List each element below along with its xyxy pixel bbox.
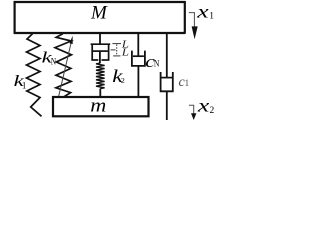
wire stem from M to cylinder <box>99 34 101 45</box>
wire stem from M <box>166 34 168 78</box>
mass M box <box>14 1 186 34</box>
cylinder left wall <box>91 44 93 60</box>
wire bottom of M <box>14 32 186 34</box>
cylinder bottom right segment <box>102 59 110 61</box>
svg-text:1: 1 <box>209 11 214 21</box>
svg-text:1: 1 <box>185 78 190 88</box>
svg-text:N: N <box>154 59 160 69</box>
arrow through kN (nonlinearity) <box>59 42 72 98</box>
wire piston rod down <box>99 51 101 63</box>
wire k2 to m <box>99 89 101 98</box>
svg-text:2: 2 <box>210 106 215 116</box>
spring k2 (coil under piston) <box>96 63 105 89</box>
cup cN <box>132 51 145 66</box>
piston plate c1 <box>161 77 172 79</box>
damper c1 <box>161 34 173 121</box>
cup c1 <box>161 72 173 91</box>
svg-text:M: M <box>90 2 108 23</box>
wire cN to m <box>137 66 139 98</box>
svg-text:N: N <box>51 57 56 67</box>
svg-text:x: x <box>196 1 209 21</box>
wire c1 to base <box>166 91 168 120</box>
node x1 marker <box>189 13 195 28</box>
arrow x2 head <box>191 113 196 120</box>
cylinder right wall <box>108 44 110 60</box>
piston plate cN <box>133 55 144 57</box>
node x2 marker <box>189 105 194 113</box>
arrow x1 head <box>192 26 198 39</box>
piston-cylinder clearance element <box>91 34 111 64</box>
spring k1 <box>27 34 42 117</box>
wire left edge of M <box>14 1 16 34</box>
svg-text:1: 1 <box>22 81 27 91</box>
damper cN <box>132 34 145 98</box>
svg-text:m: m <box>90 96 106 116</box>
wire right edge of M <box>184 1 186 34</box>
spring kN (nonlinear) <box>55 34 72 97</box>
mass m box <box>53 97 149 116</box>
cylinder bottom left segment <box>91 59 98 61</box>
dimension L/L indicator <box>111 44 121 56</box>
svg-text:x: x <box>197 95 210 115</box>
cylinder top <box>91 43 111 45</box>
piston plate <box>93 50 108 52</box>
wire top of M <box>14 1 186 3</box>
svg-text:L: L <box>121 47 129 58</box>
svg-text:2: 2 <box>121 76 125 85</box>
wire stem from M <box>137 34 139 57</box>
